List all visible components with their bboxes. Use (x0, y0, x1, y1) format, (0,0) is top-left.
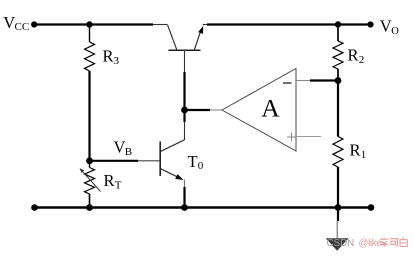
svg-text:A: A (261, 94, 280, 123)
node junction dot top of R2 (335, 21, 341, 27)
wire op-amp output thick (185, 109, 211, 111)
wire top rail left thick (34, 23, 153, 25)
transistor T0 (160, 140, 184, 180)
wire inverting input thin (296, 80, 311, 82)
wire R3 top lead (89, 25, 91, 43)
wire VB to T0 base thick (90, 160, 139, 162)
svg-text:T: T (188, 152, 198, 171)
svg-text:CSDN: CSDN (327, 238, 355, 249)
wire R1 bottom lead (337, 167, 339, 208)
wire ground lead dark (337, 208, 339, 222)
svg-text:R: R (103, 47, 114, 66)
wire bottom rail (35, 206, 372, 208)
wire top rail right thin from transistor emitter (203, 24, 209, 26)
node base drive junction dot (181, 107, 188, 114)
wire inverting input thick (310, 79, 338, 81)
node junction dot ground branch (335, 204, 342, 211)
ground (326, 238, 349, 251)
wire non-inverting input stub (296, 136, 321, 138)
node junction dot T0 emitter (181, 204, 188, 211)
transistor Q1 top pass transistor (168, 25, 204, 51)
svg-text:0: 0 (198, 160, 204, 172)
wire top rail left thin to transistor collector (153, 24, 168, 26)
wire T0 emitter down thin (184, 180, 186, 189)
svg-text:T: T (115, 180, 122, 192)
svg-text:CC: CC (15, 21, 30, 33)
svg-text:2: 2 (359, 54, 365, 66)
svg-text:B: B (125, 146, 132, 158)
svg-text:O: O (391, 26, 399, 37)
wire T0 emitter down to ground rail (183, 187, 185, 208)
node VO terminal dot (367, 21, 373, 27)
wire R2 bottom lead (337, 69, 339, 81)
label VB (114, 138, 133, 159)
resistor RT (thermistor) (85, 168, 95, 195)
label RT (104, 171, 122, 192)
wire ground lead grey (336, 221, 338, 239)
wire Q1 base lead thick to node (183, 72, 185, 110)
wire feedback node down to R1 (337, 81, 339, 137)
RT arrow (80, 168, 101, 192)
wire RT bottom lead (89, 194, 91, 208)
node junction dot top of R3 (86, 21, 92, 27)
resistor R1 (333, 137, 343, 168)
label T0 (188, 152, 204, 172)
node bottom-right terminal dot (368, 204, 375, 211)
label VO (380, 17, 400, 38)
svg-text:R: R (350, 141, 361, 160)
svg-text:@like: @like (359, 238, 383, 249)
resistor R3 (85, 42, 95, 71)
svg-text:V: V (3, 13, 15, 32)
op-amp U1 (222, 69, 296, 152)
wire T0 collector up thick to node (183, 110, 185, 122)
wire T0 collector up thin (184, 122, 186, 140)
label R1 (350, 141, 367, 162)
wire RT top lead (89, 161, 91, 168)
svg-text:1: 1 (361, 149, 367, 161)
wire top rail right thick (207, 23, 371, 25)
resistor R2 (333, 41, 343, 69)
svg-text:V: V (380, 17, 392, 36)
node bottom-left terminal dot (31, 204, 38, 211)
label R2 (348, 46, 365, 67)
svg-text:R: R (104, 171, 115, 190)
label R3 (103, 47, 120, 68)
svg-text:3: 3 (114, 55, 120, 67)
wire R2 top lead (337, 25, 339, 42)
wire VB to T0 base thin (138, 160, 160, 162)
node junction dot RT bottom (86, 204, 93, 211)
wire R3 bottom lead to VB node (88, 71, 90, 161)
watermark CSDN (327, 238, 383, 249)
svg-text:R: R (348, 46, 359, 65)
svg-text:V: V (114, 138, 126, 157)
wire op-amp output thin (210, 109, 222, 111)
node VB junction dot (86, 157, 93, 164)
watermark CJK glyphs (380, 237, 407, 247)
wire Q1 base lead thin (184, 50, 186, 72)
node VCC terminal dot (31, 21, 37, 27)
label VCC (3, 13, 29, 33)
node feedback junction dot (335, 77, 342, 84)
